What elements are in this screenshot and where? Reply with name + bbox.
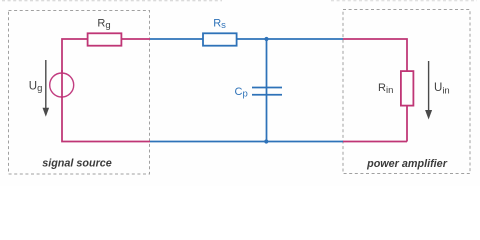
svg-text:power amplifier: power amplifier (366, 158, 448, 170)
resistor Rin (401, 71, 414, 106)
arrow Uin (425, 61, 432, 120)
svg-text:Rs: Rs (213, 18, 226, 32)
svg-text:Rin: Rin (378, 82, 393, 96)
wire: bottom middle (blue) (150, 141, 343, 143)
outer dashed border segment top-left (2, 0, 222, 2)
voltage source Ug circle (50, 73, 74, 97)
svg-text:Rg: Rg (97, 18, 110, 32)
node bottom junction (264, 139, 268, 143)
signal source dashed box (9, 11, 150, 175)
resistor Rg (88, 33, 122, 45)
svg-text:Cp: Cp (235, 86, 248, 100)
arrow Ug (43, 60, 50, 117)
wire: junction down to bottom junction (blue) (266, 39, 268, 142)
resistor Rs (203, 33, 237, 45)
capacitor Cp (252, 88, 282, 95)
node top junction (264, 37, 268, 41)
wire: Rin bottom (pink) (406, 106, 408, 142)
wire: Rs to right box edge (blue) (237, 38, 344, 40)
outer dashed border segment top-right (331, 0, 477, 2)
power amplifier dashed box (343, 10, 470, 174)
wire: Rg to box edge (pink) (122, 38, 150, 40)
wire: box edge to Rs (blue) (150, 38, 203, 40)
svg-text:signal source: signal source (42, 158, 112, 170)
wire: source bottom (pink) (62, 70, 150, 142)
svg-text:Ug: Ug (29, 81, 43, 95)
wire: top-right (pink) (343, 39, 407, 71)
wire: bottom right (pink) (343, 141, 407, 143)
wire through source (61, 72, 63, 98)
wire: source top (pink) (62, 39, 87, 98)
